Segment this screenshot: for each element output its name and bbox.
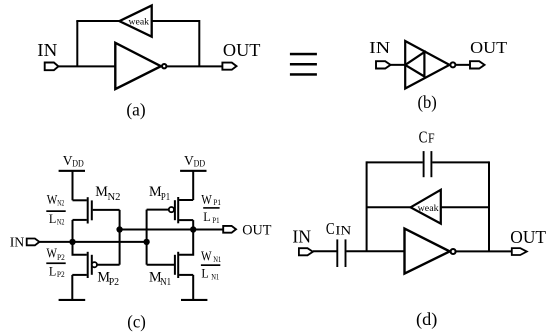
output port pin (b)	[470, 61, 485, 68]
svg-text:P2: P2	[57, 253, 65, 262]
main inverter U1	[115, 43, 161, 89]
svg-text:IN: IN	[335, 222, 352, 237]
wire CF top right	[432, 161, 489, 163]
svg-text:V: V	[184, 153, 194, 168]
wire feedback right vertical	[198, 20, 200, 66]
U1 output bubble	[162, 64, 166, 68]
wire OUT rail	[120, 229, 224, 231]
wire C to MP1 gate	[147, 209, 169, 211]
svg-text:L: L	[203, 209, 210, 224]
svg-text:IN: IN	[369, 38, 390, 57]
svg-text:IN: IN	[37, 40, 57, 60]
svg-text:(a): (a)	[126, 99, 145, 120]
output port pin (c)	[223, 226, 236, 233]
svg-text:OUT: OUT	[510, 227, 546, 247]
equivalence bar 2	[290, 63, 317, 66]
svg-text:N1: N1	[211, 273, 219, 282]
wire inverter output to OUT	[167, 65, 223, 67]
wire CF top left	[367, 161, 423, 163]
svg-text:P2: P2	[109, 276, 119, 288]
MP2 gate bubble	[92, 262, 97, 267]
equivalence bar 1	[290, 53, 317, 56]
svg-text:N1: N1	[160, 276, 171, 288]
wire feedback left vertical	[76, 21, 78, 66]
svg-text:DD: DD	[194, 159, 206, 169]
output port pin (a)	[222, 63, 236, 70]
VDD rail left	[59, 170, 85, 172]
ground rail left	[59, 299, 86, 301]
svg-text:N1: N1	[213, 255, 221, 264]
wire weak row left	[367, 206, 411, 208]
svg-text:(d): (d)	[416, 309, 437, 330]
wire CIN to inverter	[346, 250, 404, 252]
weak inverter U2	[119, 6, 151, 37]
wire inverter to OUT (d)	[456, 250, 512, 252]
ground rail right	[181, 299, 207, 301]
wire IN to CIN	[313, 250, 337, 252]
svg-text:OUT: OUT	[223, 40, 261, 60]
wire C to MN1 gate	[147, 264, 174, 266]
svg-text:L: L	[49, 211, 56, 226]
svg-text:(c): (c)	[127, 311, 146, 332]
wire IN to symbol (b)	[391, 64, 406, 66]
svg-text:OUT: OUT	[470, 38, 507, 57]
capacitor CF	[424, 151, 432, 177]
wire IN node down to MP2	[73, 242, 87, 255]
svg-text:P1: P1	[161, 191, 170, 203]
MP1 gate bubble	[169, 207, 174, 212]
wire IN rail	[39, 241, 146, 243]
wire vertical C gates of right column	[146, 210, 148, 265]
wire MN2 source to IN node	[72, 220, 74, 242]
input port pin (a)	[45, 63, 59, 71]
svg-text:W: W	[46, 247, 57, 262]
svg-text:V: V	[63, 153, 73, 168]
output bubble (b)	[450, 62, 455, 67]
wire MP2 gate to node B	[97, 264, 120, 266]
main inverter (d)	[405, 229, 450, 274]
svg-text:W: W	[201, 193, 212, 208]
junction dot IN-right	[143, 239, 149, 245]
svg-text:P1: P1	[213, 198, 221, 207]
svg-text:L: L	[201, 265, 208, 280]
svg-text:P2: P2	[57, 270, 65, 279]
wire MP2 source to ground	[71, 275, 73, 300]
svg-text:N2: N2	[57, 199, 64, 208]
svg-text:F: F	[428, 131, 435, 146]
svg-text:weak: weak	[418, 203, 439, 214]
svg-text:IN: IN	[292, 226, 311, 246]
svg-text:L: L	[49, 263, 56, 278]
svg-text:M: M	[95, 184, 108, 200]
svg-text:W: W	[201, 249, 212, 264]
transistor MN2	[73, 197, 120, 223]
svg-text:weak: weak	[129, 17, 150, 28]
weak inverter (d)	[411, 190, 441, 224]
capacitor CIN	[337, 239, 345, 267]
wire feedback top right segment	[152, 20, 200, 22]
output port pin (d)	[512, 248, 527, 255]
svg-text:N2: N2	[57, 218, 65, 227]
wire MN2 gate down vertical B	[119, 210, 121, 265]
equivalence bar 3	[290, 73, 317, 76]
input port pin (c)	[27, 239, 40, 246]
wire VDD to MP1 drain	[192, 171, 194, 200]
wire VDD to MN2 drain	[72, 171, 74, 200]
svg-text:C: C	[419, 128, 428, 147]
wire IN to inverter input	[58, 65, 115, 67]
VDD rail right	[180, 170, 206, 172]
junction dot IN-left	[69, 239, 75, 245]
input port pin (d)	[299, 248, 313, 255]
svg-text:IN: IN	[10, 236, 25, 251]
output bubble (d)	[451, 249, 456, 254]
svg-text:DD: DD	[72, 159, 84, 169]
wire weak row right	[441, 206, 489, 208]
svg-text:OUT: OUT	[242, 222, 271, 238]
weak inverter triangle (b)	[405, 52, 424, 76]
wire OUT dot down to MN1 drain	[179, 230, 193, 255]
main inverter triangle (b)	[405, 41, 449, 89]
transistor MN1	[175, 252, 193, 278]
wire feedback right vertical (d)	[488, 161, 490, 251]
junction dot B on OUT rail	[116, 226, 122, 232]
wire feedback top left segment	[76, 20, 120, 22]
svg-text:C: C	[326, 219, 335, 238]
svg-text:N2: N2	[108, 191, 121, 203]
wire feedback left vertical (d)	[366, 161, 368, 251]
wire bubble to OUT (b)	[456, 64, 471, 66]
wire MN1 source to ground	[192, 275, 194, 300]
svg-text:(b): (b)	[418, 92, 437, 113]
wire MP1 source to OUT dot	[192, 220, 194, 229]
transistor MP1	[175, 197, 193, 223]
transistor MP2	[72, 252, 92, 278]
svg-text:P1: P1	[212, 216, 219, 225]
junction dot D on OUT rail	[190, 226, 196, 232]
input port pin (b)	[376, 61, 391, 68]
